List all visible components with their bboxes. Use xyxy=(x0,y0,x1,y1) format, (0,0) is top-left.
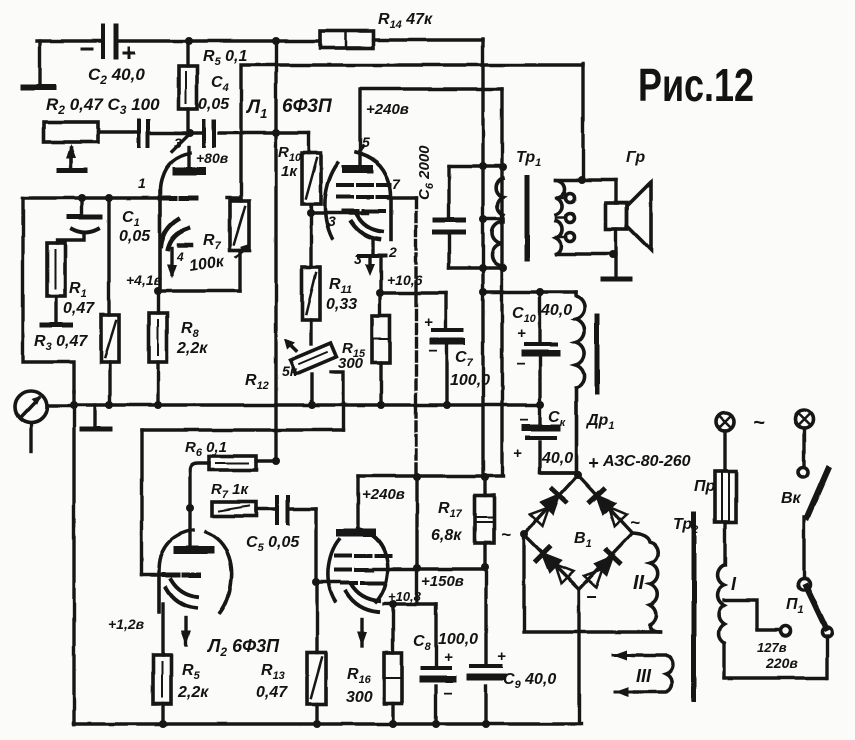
svg-text:300: 300 xyxy=(346,689,373,706)
svg-text:+: + xyxy=(444,649,453,666)
svg-text:6Ф3П: 6Ф3П xyxy=(282,96,332,117)
svg-text:~: ~ xyxy=(630,513,640,532)
svg-text:0,47: 0,47 xyxy=(63,300,95,317)
svg-text:1: 1 xyxy=(138,175,146,191)
svg-text:2,2к: 2,2к xyxy=(177,684,209,701)
svg-text:−: − xyxy=(519,412,528,429)
svg-text:3: 3 xyxy=(328,213,336,229)
svg-text:−: − xyxy=(443,686,452,703)
svg-text:3: 3 xyxy=(174,135,182,151)
svg-text:+240в: +240в xyxy=(362,486,405,503)
svg-text:+240в: +240в xyxy=(366,101,409,118)
svg-text:Л2 6Ф3П: Л2 6Ф3П xyxy=(206,636,280,659)
svg-text:0,47: 0,47 xyxy=(256,684,288,701)
svg-text:+4,1в: +4,1в xyxy=(126,272,163,288)
svg-text:+1,2в: +1,2в xyxy=(108,616,145,632)
svg-text:0,05: 0,05 xyxy=(198,96,230,113)
svg-text:II: II xyxy=(633,572,645,594)
svg-text:Пр: Пр xyxy=(694,478,716,495)
svg-text:III: III xyxy=(636,666,652,686)
svg-text:7: 7 xyxy=(392,176,401,192)
svg-text:−: − xyxy=(428,343,437,360)
svg-text:220в: 220в xyxy=(765,655,798,671)
svg-text:+: + xyxy=(513,445,522,462)
svg-text:5к: 5к xyxy=(282,363,298,379)
svg-text:+: + xyxy=(424,314,433,331)
svg-text:100,0: 100,0 xyxy=(450,372,490,389)
svg-text:0,33: 0,33 xyxy=(326,296,357,313)
svg-text:2,2к: 2,2к xyxy=(176,340,208,357)
svg-text:1к: 1к xyxy=(281,163,298,180)
svg-text:~: ~ xyxy=(501,525,511,544)
svg-text:АЗС-80-260: АЗС-80-260 xyxy=(602,453,691,470)
svg-text:3: 3 xyxy=(354,251,362,267)
svg-text:+10,6: +10,6 xyxy=(387,272,423,288)
svg-text:5: 5 xyxy=(362,134,370,150)
svg-text:40,0: 40,0 xyxy=(540,302,572,319)
svg-text:+150в: +150в xyxy=(421,573,464,590)
svg-text:Гр: Гр xyxy=(626,149,645,166)
svg-text:0,05: 0,05 xyxy=(119,228,151,245)
svg-text:100,0: 100,0 xyxy=(438,631,478,648)
svg-text:−: − xyxy=(516,356,525,373)
svg-text:4: 4 xyxy=(176,250,184,264)
svg-text:40,0: 40,0 xyxy=(541,450,573,467)
svg-text:+: + xyxy=(497,648,506,665)
svg-text:~: ~ xyxy=(753,412,765,434)
svg-text:127в: 127в xyxy=(757,640,787,655)
svg-text:−: − xyxy=(586,587,597,607)
svg-text:Вк: Вк xyxy=(781,490,802,507)
svg-text:+: + xyxy=(588,453,599,473)
svg-text:+80в: +80в xyxy=(196,150,229,166)
svg-text:6,8к: 6,8к xyxy=(431,527,462,544)
svg-text:С2 40,0: С2 40,0 xyxy=(88,65,145,87)
svg-text:+10,8: +10,8 xyxy=(388,589,422,604)
svg-text:+: + xyxy=(517,325,526,342)
svg-text:Рис.12: Рис.12 xyxy=(638,59,754,111)
svg-text:2: 2 xyxy=(388,244,397,260)
